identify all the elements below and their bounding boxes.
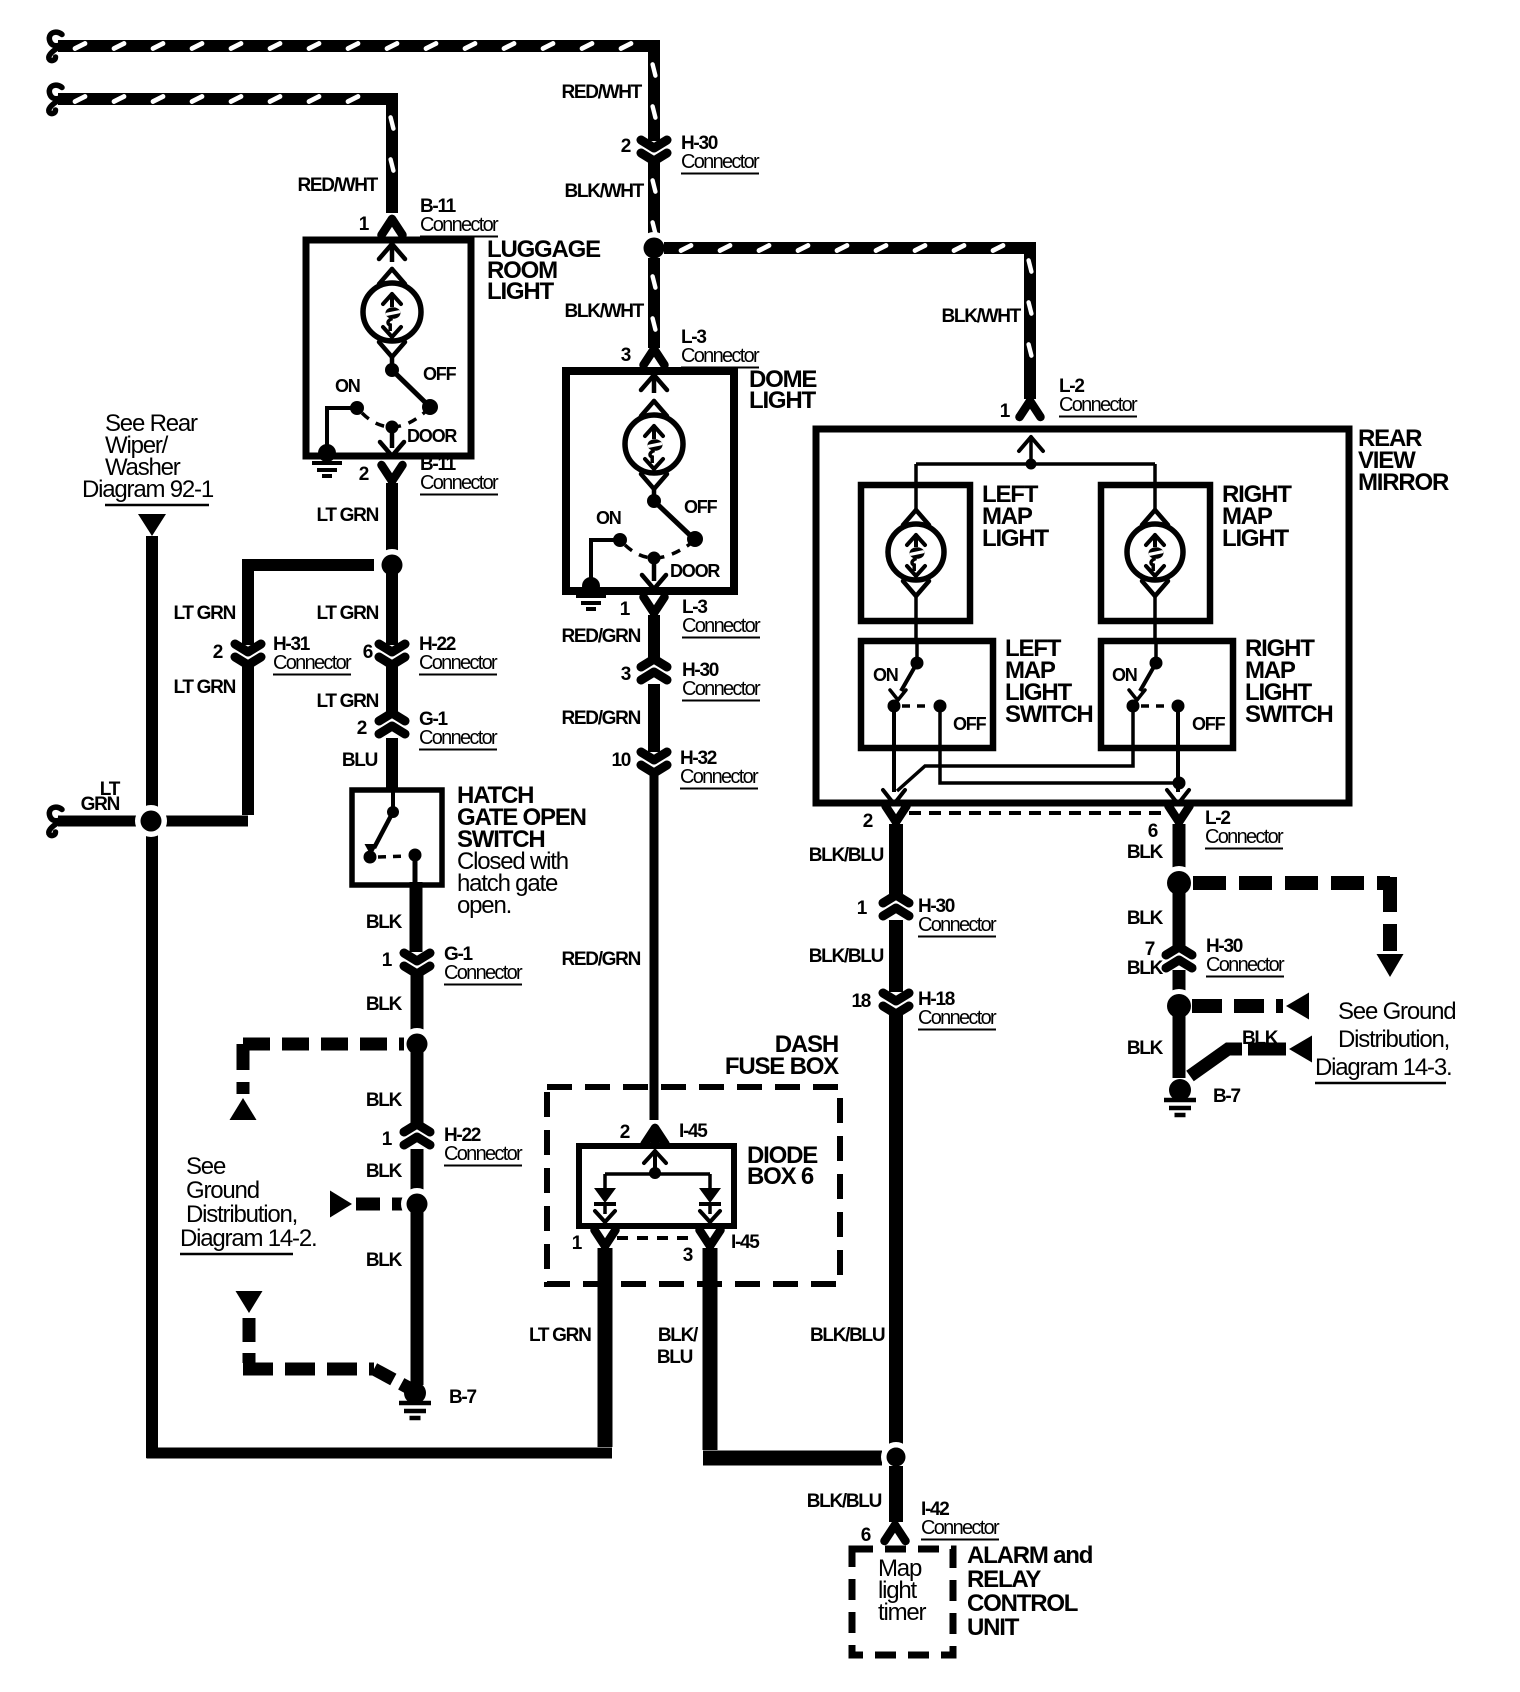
dome switch OFF contact [687,531,703,547]
luggage switch ON contact [350,401,364,415]
wire RED/GRN H-32 to diode box (thin) [650,774,659,1120]
connector I-42 pin 6 fork [885,1525,906,1541]
connector H-22 pin 6 [379,644,405,665]
svg-text:BLK: BLK [366,912,403,933]
connector I-45 pin 1 fork [595,1230,616,1246]
diode D2 (right) [699,1188,721,1203]
junction node at (151,821) [135,805,167,837]
svg-text:18: 18 [851,991,870,1012]
hatch gate open switch box [352,790,442,885]
svg-text:Connector: Connector [419,727,498,749]
connector H-30 pin 2 [641,140,667,161]
svg-text:Connector: Connector [420,472,499,494]
junction node at (1179,883) [1162,866,1196,900]
connector H-18 pin 18 [883,993,909,1014]
svg-text:OFF: OFF [1192,714,1226,734]
svg-text:ON: ON [335,376,360,396]
svg-text:2: 2 [359,464,369,485]
luggage switch ground [318,444,336,462]
luggage switch pivot contact [385,363,399,377]
connector L-2 pin 6 fork [1169,806,1190,822]
right switch dashed link [1141,704,1171,708]
right switch blade [1140,663,1156,691]
dashed stub wire to ground-distribution arrow (horizontal) [243,1038,404,1051]
hatch switch right contact [409,849,422,862]
connector L-3 pin 1 fork [644,597,665,613]
arrow into junction (right triangle) [330,1191,352,1218]
wire left OFF to right bus [940,712,1179,783]
right map light switch box [1101,641,1233,748]
svg-text:UNIT: UNIT [967,1614,1020,1641]
svg-text:BLK/: BLK/ [658,1325,699,1346]
svg-text:Connector: Connector [681,151,760,173]
wire RED/GRN L-3 to H-30 [648,615,660,664]
dome DOOR output wire [652,558,657,581]
svg-text:CONTROL: CONTROL [967,1590,1078,1617]
svg-text:BLK/BLU: BLK/BLU [810,1325,885,1346]
luggage switch DOOR arc (dashed) [362,412,425,427]
junction node at (654,248) [638,232,670,264]
wire BLK/BLU junction to I-42 [889,1466,903,1522]
diode box internal rail [605,1172,710,1176]
wire BLK/BLU L-2 down [889,824,903,899]
svg-text:BLK: BLK [1127,842,1164,863]
left map light switch box [861,641,993,748]
ground B-7 (left) [404,1382,426,1404]
wire BLK junction2 to B-7 [411,1212,424,1385]
dashed wire to ground distribution (horizontal) [1193,876,1390,890]
svg-text:BLK/BLU: BLK/BLU [809,946,884,967]
svg-text:ON: ON [873,665,898,685]
luggage DOOR contact [386,421,399,434]
hatch switch dashed link [378,856,408,857]
wire BLK/BLU H-30 to H-18 [889,920,903,992]
wire W2 RED/WHT horizontal feed [58,93,392,105]
svg-text:BLK: BLK [366,1250,403,1271]
hatch switch output wire [413,855,418,885]
dome switch pivot contact [647,494,661,508]
svg-text:OFF: OFF [953,714,987,734]
hatch switch top contact [391,790,395,808]
svg-text:LIGHT: LIGHT [749,387,817,414]
svg-text:MIRROR: MIRROR [1358,469,1449,496]
svg-text:OFF: OFF [423,364,457,384]
svg-text:Connector: Connector [420,214,499,236]
wire BLK H-30 pin7 to junction3 [1173,970,1186,998]
left switch pivot [915,641,919,660]
svg-text:LIGHT: LIGHT [1222,525,1290,552]
svg-text:7: 7 [1145,939,1155,960]
svg-text:Connector: Connector [273,652,352,674]
svg-text:Connector: Connector [921,1517,1000,1539]
svg-text:BLK/WHT: BLK/WHT [942,306,1022,327]
wire LT GRN main below junction [386,570,398,645]
svg-text:RED/GRN: RED/GRN [561,708,640,729]
luggage ON wire to ground [327,408,357,450]
wire BLK/BLU H-18 down to junction [889,1015,903,1449]
svg-text:I-45: I-45 [731,1232,760,1253]
diode D1 (left) [594,1188,616,1203]
svg-text:BLK: BLK [366,1090,403,1111]
svg-text:B-7: B-7 [1213,1086,1240,1107]
svg-text:BLK/WHT: BLK/WHT [565,301,645,322]
mirror feed arrow [1019,437,1043,451]
connector H-30 pin 3 [641,659,667,680]
svg-text:BLU: BLU [657,1347,693,1368]
svg-text:Connector: Connector [680,766,759,788]
svg-text:BLK/BLU: BLK/BLU [809,845,884,866]
mirror internal node 2 [1173,777,1186,790]
svg-text:BLK: BLK [366,994,403,1015]
wire BLK/BLU bottom horizontal [703,1451,882,1466]
right map light bulb [1142,510,1168,525]
wire right ON to left bus [897,712,1133,791]
svg-text:B-7: B-7 [449,1387,476,1408]
svg-text:BLK: BLK [1127,908,1164,929]
dome switch ON contact [613,533,627,547]
svg-text:BLK: BLK [1242,1028,1279,1049]
luggage lamp feed arrow [379,244,405,259]
connector G-1 pin 1 [404,953,430,974]
svg-text:6: 6 [363,642,373,663]
dome ON wire to ground [591,540,620,582]
svg-text:ON: ON [1112,665,1137,685]
svg-text:3: 3 [621,664,631,685]
arrow below note (down triangle) [138,514,166,536]
wire I-45 pin2 into diode box [651,1130,660,1146]
dashed stub to junction 2 [356,1198,404,1211]
S-hook start of wire W2 [49,85,62,113]
left switch blade [901,663,917,691]
svg-text:Connector: Connector [681,345,760,367]
rear view mirror box [816,429,1349,803]
dome light box [566,371,734,591]
dashed ground stub (diagonal) [374,1369,409,1388]
dashed link I-45 pins [617,1236,697,1240]
svg-text:BOX 6: BOX 6 [747,1163,814,1190]
connector L-2 pin 1 fork [1020,401,1041,417]
svg-text:2: 2 [621,136,631,157]
left map light box [861,485,970,621]
svg-text:RED/GRN: RED/GRN [561,949,640,970]
wire BLK/WHT junction to L-3 [648,258,660,348]
hatch switch left contact [364,851,377,864]
connector I-45 pin 3 fork [700,1230,721,1246]
arrow from ground distribution (up triangle) [230,1098,257,1120]
svg-text:Connector: Connector [1205,826,1284,848]
left switch ON contact [888,700,901,713]
mirror internal rail [916,462,1155,466]
wire LT GRN diode pin1 down [598,1248,613,1447]
svg-text:10: 10 [611,750,630,771]
junction node at (417,1044) [401,1028,433,1060]
connector H-22 pin 1 [404,1124,430,1145]
wire branch to H-31 (vertical) [242,559,254,645]
svg-text:RED/WHT: RED/WHT [561,82,642,103]
dash fuse box dashed border [547,1087,840,1284]
wire BLK/WHT vertical drop to L-2 [1024,242,1036,399]
svg-text:6: 6 [1148,821,1158,842]
svg-text:Connector: Connector [1206,954,1285,976]
svg-text:BLK: BLK [366,1161,403,1182]
svg-text:I-45: I-45 [679,1121,708,1142]
luggage switch OFF contact [422,399,438,415]
svg-text:LT GRN: LT GRN [173,603,235,624]
svg-text:ALARM and: ALARM and [967,1542,1093,1569]
arrow from diagram 14-3 (left triangle, lower) [1289,1036,1312,1063]
svg-text:BLK: BLK [1127,958,1164,979]
svg-text:LIGHT: LIGHT [982,525,1050,552]
svg-text:Connector: Connector [918,914,997,936]
connector H-30 pin 1 [883,895,909,916]
svg-text:RELAY: RELAY [967,1566,1041,1593]
hatch switch blade [374,812,393,848]
svg-text:2: 2 [620,1122,630,1143]
svg-text:2: 2 [357,718,367,739]
wire lamp to switch pivot [390,355,395,370]
alarm control unit dashed box (Map light timer) [852,1549,953,1655]
wire W1 vertical drop to H-30 [648,46,660,141]
dashed stub wire (vertical) [237,1044,250,1094]
dashed ground stub (horizontal) [243,1363,374,1376]
diode box 6 outline [579,1146,734,1226]
wire BLU G-1 to hatch switch [386,738,398,792]
luggage room light box [306,240,471,456]
corner pin1 to bottom rail [605,1448,612,1459]
dashed link L-2 pins [909,811,1166,815]
svg-text:3: 3 [683,1245,693,1266]
arrow to ground distribution (down triangle) [1377,954,1404,977]
wire left lamp to switch [914,594,918,641]
svg-text:timer: timer [878,1599,927,1626]
svg-text:Diagram 92-1: Diagram 92-1 [82,476,214,503]
wire BLK/WHT junction to rear-view-mirror (horizontal) [664,242,1036,254]
svg-text:LT GRN: LT GRN [316,603,378,624]
diode box internal node [649,1167,661,1179]
svg-text:BLK/WHT: BLK/WHT [565,181,645,202]
svg-text:See Ground: See Ground [1338,998,1455,1025]
wire left ON output [892,712,896,792]
svg-text:LIGHT: LIGHT [487,278,555,305]
dome DOOR contact [648,552,661,565]
luggage switch blade to OFF [392,370,429,406]
svg-text:Diagram 14-3.: Diagram 14-3. [1315,1054,1451,1081]
svg-text:Distribution,: Distribution, [186,1201,297,1228]
wire BLK/BLU diode pin3 down [703,1248,718,1450]
dashed wire to ground distribution (vertical) [1383,877,1397,951]
mirror internal node [1026,459,1037,470]
svg-text:DOOR: DOOR [670,561,720,581]
dome lamp feed arrow [641,375,667,390]
connector G-1 pin 2 [379,713,405,734]
svg-text:See: See [186,1153,226,1180]
connector I-45 pin 2 fork [645,1128,666,1144]
connector L-2 pin 2 fork [886,806,907,822]
wire right lamp to switch [1153,594,1157,641]
wire LT GRN stub horizontal [58,816,248,827]
svg-text:Connector: Connector [1059,394,1138,416]
dome switch ground [582,577,600,595]
wire BLK hatch to G-1 [410,882,423,952]
wire W2 vertical drop to B-11 [386,99,398,213]
svg-text:RED/WHT: RED/WHT [297,175,378,196]
svg-text:Ground: Ground [186,1177,259,1204]
svg-text:DOOR: DOOR [407,426,457,446]
dashed ground stub (vertical) [243,1318,256,1363]
svg-text:Connector: Connector [682,615,761,637]
svg-text:open.: open. [457,892,511,919]
svg-text:SWITCH: SWITCH [1245,701,1332,728]
wire BLK H-22 to junction 2 [411,1149,424,1196]
svg-text:Connector: Connector [918,1007,997,1029]
svg-text:2: 2 [213,642,223,663]
wire BLK/WHT H-30 to junction [648,162,660,240]
connector B-11 pin 1 fork [382,219,403,235]
svg-text:ON: ON [596,508,621,528]
left switch OFF contact [934,700,947,713]
wire BLK G-1 to junction [411,975,424,1036]
svg-text:Connector: Connector [444,1143,523,1165]
connector L-3 pin 3 fork [644,349,665,365]
wire right OFF output [1176,712,1180,792]
svg-text:Distribution,: Distribution, [1338,1026,1449,1053]
svg-text:Connector: Connector [444,962,523,984]
dashed ground stub arrow (down triangle) [236,1291,263,1313]
dome lamp bulb [641,401,667,416]
wire BLK junction to H-22 [411,1052,424,1128]
left map light bulb [903,510,929,525]
wire LT GRN H-31 to junction wire [242,666,254,815]
wire branch to H-31 (horizontal) [248,559,374,571]
svg-text:LT GRN: LT GRN [173,677,235,698]
svg-text:BLK: BLK [1127,1038,1164,1059]
left switch dashed link [902,704,932,708]
wire LT GRN H-22 to G-1 [386,666,398,716]
wire BLK diagonal to diagram 14-3 [1190,1049,1286,1076]
luggage lamp bulb [379,269,405,284]
dome switch DOOR arc (dashed) [625,544,690,558]
svg-text:LT GRN: LT GRN [529,1325,591,1346]
connector H-30 pin 7 [1166,947,1192,968]
wire LT GRN left long bottom horizontal [147,1448,606,1459]
svg-text:LT GRN: LT GRN [316,691,378,712]
svg-text:3: 3 [621,345,631,366]
right switch OFF contact [1172,700,1185,713]
ground B-7 (right) [1169,1079,1191,1101]
wire dome lamp to pivot [652,487,657,501]
svg-text:OFF: OFF [684,497,718,517]
junction node at (1179,1006) [1162,989,1196,1023]
svg-text:LT GRN: LT GRN [316,505,378,526]
wire BLK junction3 to B-7 [1173,1014,1186,1078]
right map light box [1101,485,1210,621]
arrow from diagram 14-3 (left triangle, upper) [1286,993,1309,1020]
junction node at (392,565) [376,549,408,581]
svg-text:Connector: Connector [419,652,498,674]
right switch pivot [1154,641,1158,660]
dome switch blade to OFF [654,501,693,538]
wire W1 RED/WHT horizontal feed (top) [58,40,655,52]
wire LT GRN below B-11 [386,483,398,560]
svg-text:GRN: GRN [81,794,120,815]
svg-text:Connector: Connector [682,678,761,700]
junction node at (417,1204) [401,1188,433,1220]
luggage DOOR output wire [390,427,395,448]
svg-text:RED/GRN: RED/GRN [561,626,640,647]
diode box input arrow [644,1151,666,1163]
svg-text:SWITCH: SWITCH [1005,701,1092,728]
right switch ON contact [1127,700,1140,713]
connector B-11 pin 2 fork [382,465,403,481]
svg-text:Diagram 14-2.: Diagram 14-2. [180,1225,316,1252]
svg-text:BLK/BLU: BLK/BLU [807,1491,882,1512]
wire RED/GRN H-30 to H-32 [648,684,660,752]
svg-text:FUSE BOX: FUSE BOX [725,1053,839,1080]
svg-text:2: 2 [863,811,873,832]
wire BLK L-2 pin6 down [1173,824,1186,875]
S-hook start of wire W1 [49,32,62,60]
dashed wire to diagram 14-3 (upper) [1192,999,1283,1013]
connector H-32 pin 10 [641,752,667,773]
svg-text:6: 6 [861,1525,871,1546]
wire LT GRN left long vertical [146,536,158,1458]
wire BLK junction to H-30 pin7 [1173,891,1186,950]
svg-text:BLU: BLU [342,750,378,771]
S-hook start of LT GRN stub [49,807,62,835]
junction node at (896,1457) [881,1442,911,1472]
connector H-31 pin 2 [235,644,261,665]
